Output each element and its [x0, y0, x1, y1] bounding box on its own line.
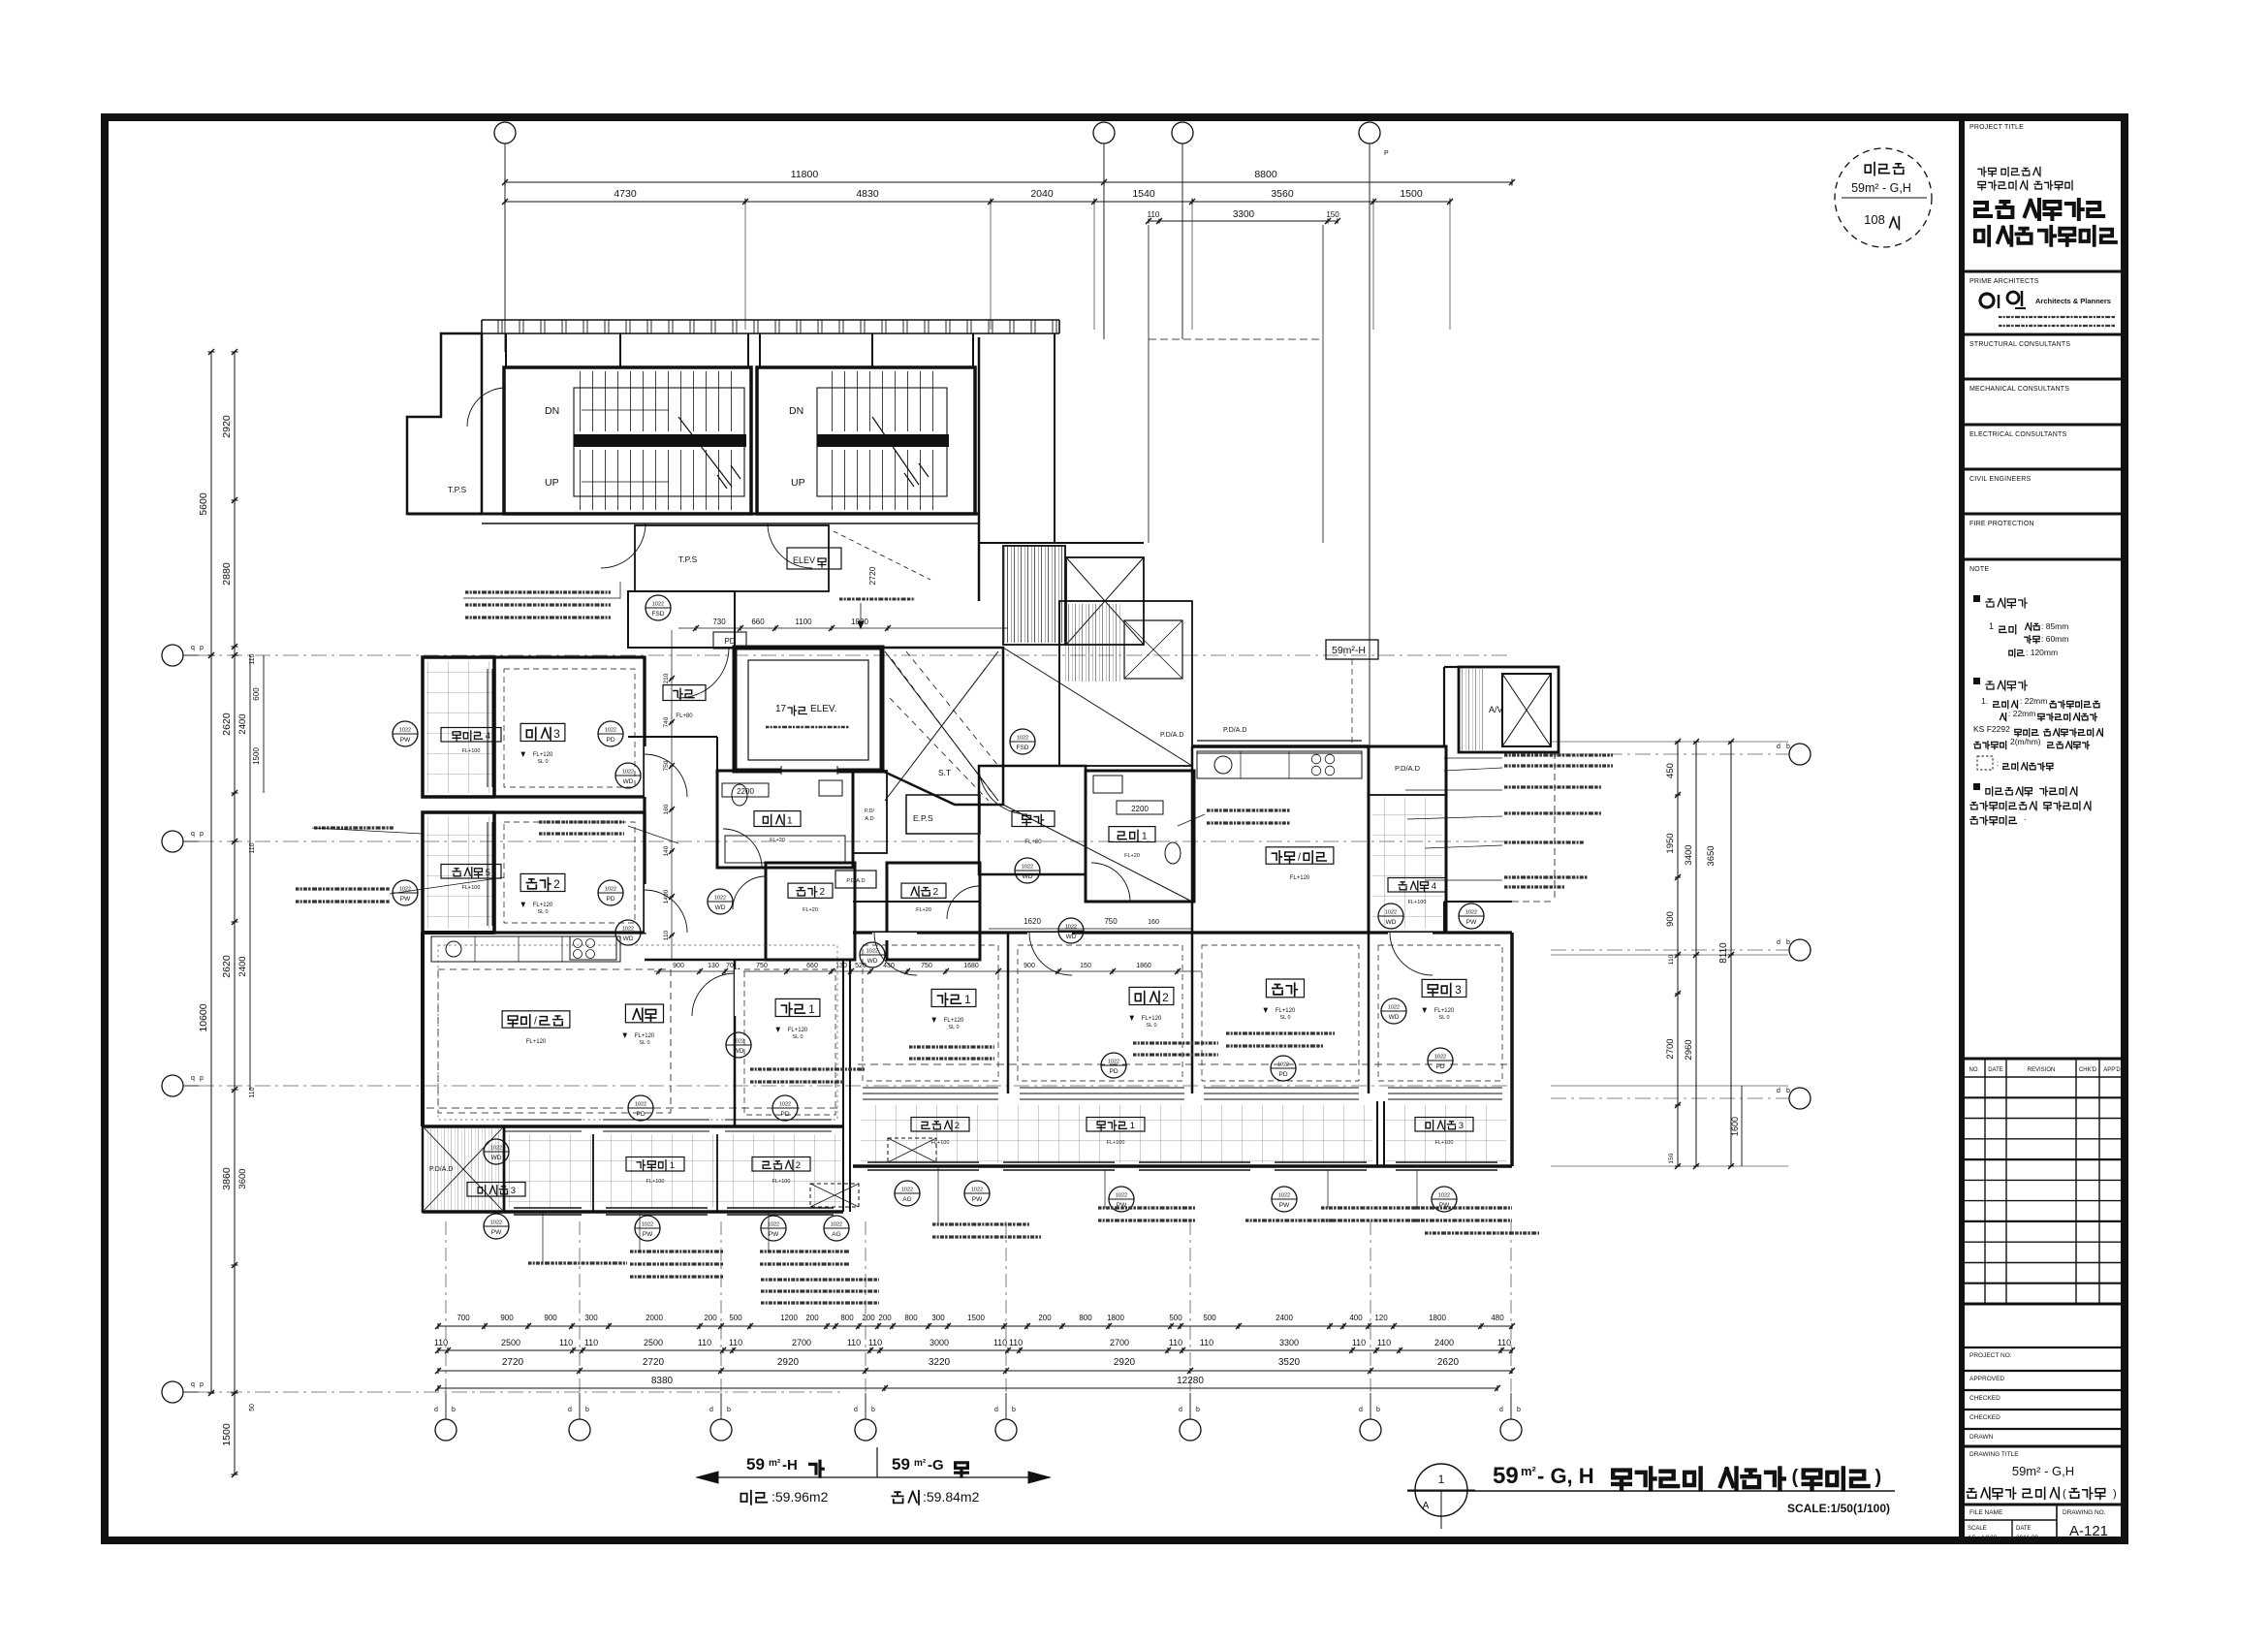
svg-text:1022: 1022 [399, 728, 411, 734]
svg-text:WD: WD [1389, 1014, 1400, 1021]
svg-text:300: 300 [931, 1314, 945, 1322]
svg-text:b: b [1376, 1407, 1380, 1413]
svg-text:P.D/A.D: P.D/A.D [1395, 764, 1421, 773]
svg-text:: 22mm: : 22mm [2008, 709, 2035, 718]
svg-text:FL+120: FL+120 [1434, 1008, 1455, 1014]
svg-text:FL+100: FL+100 [646, 1179, 665, 1185]
svg-text:1620: 1620 [1024, 917, 1041, 926]
svg-text:2620: 2620 [1437, 1357, 1460, 1368]
svg-text:/: / [534, 1016, 537, 1028]
svg-text:PW: PW [972, 1196, 983, 1203]
svg-text:REVISION: REVISION [2028, 1067, 2056, 1073]
svg-text:600: 600 [252, 687, 261, 701]
svg-text:2620: 2620 [221, 713, 233, 736]
svg-text:FL+100: FL+100 [462, 748, 481, 754]
svg-text:SCALE: SCALE [1968, 1526, 1987, 1532]
svg-text:1022: 1022 [1278, 1193, 1290, 1199]
svg-text:1200: 1200 [780, 1314, 798, 1322]
svg-text:900: 900 [500, 1314, 514, 1322]
svg-text:110: 110 [1668, 954, 1675, 965]
svg-text:1022: 1022 [1385, 910, 1397, 916]
svg-text:1800: 1800 [1429, 1314, 1446, 1322]
svg-text:59: 59 [892, 1455, 910, 1474]
svg-text:1022: 1022 [1017, 736, 1028, 742]
svg-text:FL+100: FL+100 [1408, 900, 1427, 905]
svg-text:A/V: A/V [1489, 705, 1503, 714]
svg-text:MECHANICAL CONSULTANTS: MECHANICAL CONSULTANTS [1969, 386, 2069, 393]
svg-text:110: 110 [663, 930, 670, 940]
svg-text:d: d [1777, 1088, 1780, 1094]
svg-text:110: 110 [698, 1338, 711, 1347]
svg-text:1: 1 [787, 815, 793, 826]
svg-text:d: d [1777, 939, 1780, 946]
svg-text:130: 130 [708, 963, 719, 969]
svg-text:CHECKED: CHECKED [1969, 1414, 2000, 1421]
svg-text:PROJECT TITLE: PROJECT TITLE [1969, 124, 2024, 131]
svg-text:1022: 1022 [605, 887, 616, 893]
svg-text:PW: PW [643, 1231, 653, 1238]
svg-text:110: 110 [868, 1338, 882, 1347]
svg-text:PW: PW [400, 737, 411, 744]
svg-text:-G: -G [928, 1457, 944, 1474]
svg-text:PROJECT NO.: PROJECT NO. [1969, 1352, 2012, 1359]
svg-text:A: A [1423, 1501, 1430, 1511]
svg-text:1022: 1022 [1108, 1060, 1119, 1065]
svg-text:1022: 1022 [1065, 925, 1077, 931]
svg-text:FL+80: FL+80 [676, 713, 693, 719]
svg-text:750: 750 [663, 760, 670, 771]
svg-text:4: 4 [1432, 881, 1436, 892]
svg-text:2700: 2700 [1665, 1038, 1676, 1059]
svg-text:200: 200 [878, 1314, 892, 1322]
svg-text:ELEV: ELEV [793, 555, 815, 565]
svg-text:): ) [2113, 1488, 2117, 1500]
svg-text:q: q [191, 1381, 195, 1388]
svg-text:b: b [1012, 1407, 1016, 1413]
svg-text:p: p [200, 1075, 204, 1082]
svg-text:A-121: A-121 [2069, 1523, 2108, 1539]
svg-text:4830: 4830 [856, 188, 879, 200]
svg-text:2920: 2920 [1114, 1357, 1136, 1368]
svg-text:P.D/A.D: P.D/A.D [429, 1166, 453, 1173]
svg-text:3: 3 [1455, 983, 1462, 997]
svg-text:PRIME ARCHITECTS: PRIME ARCHITECTS [1969, 278, 2039, 285]
svg-text:110: 110 [1148, 210, 1160, 219]
svg-text:4: 4 [486, 731, 490, 742]
svg-text:3600: 3600 [237, 1168, 248, 1188]
svg-text:2: 2 [820, 887, 826, 898]
svg-text:1540: 1540 [1132, 188, 1155, 200]
svg-text:UP: UP [791, 477, 805, 489]
svg-text:d: d [568, 1407, 572, 1413]
svg-text:T.P.S: T.P.S [678, 555, 698, 564]
svg-text:2(m/hm): 2(m/hm) [2010, 737, 2041, 746]
svg-text:160: 160 [663, 804, 670, 814]
svg-text:b: b [1196, 1407, 1200, 1413]
svg-text:1680: 1680 [963, 963, 979, 969]
svg-text:WD: WD [1386, 919, 1397, 926]
svg-text:PD: PD [636, 1111, 645, 1118]
svg-text:1022: 1022 [1116, 1193, 1127, 1199]
svg-text:p: p [200, 831, 204, 838]
svg-text:1022: 1022 [1388, 1005, 1400, 1011]
svg-text:110: 110 [584, 1338, 598, 1347]
svg-text:140: 140 [663, 845, 670, 856]
svg-text:b: b [452, 1407, 456, 1413]
svg-text:(: ( [1792, 1467, 1799, 1488]
svg-text:WD: WD [734, 1048, 744, 1055]
svg-text:FL+120: FL+120 [788, 1028, 808, 1033]
svg-text:AG: AG [902, 1196, 911, 1203]
svg-text:m²: m² [914, 1458, 927, 1469]
svg-text:1100: 1100 [795, 618, 812, 626]
svg-text:59: 59 [1493, 1463, 1519, 1489]
svg-text:d: d [854, 1407, 858, 1413]
svg-text:900: 900 [544, 1314, 557, 1322]
svg-text:PW: PW [1466, 919, 1477, 926]
svg-text:KS F2292: KS F2292 [1973, 724, 2010, 734]
svg-text:): ) [1875, 1467, 1882, 1488]
svg-text:110: 110 [1377, 1338, 1391, 1347]
svg-text:FL+120: FL+120 [526, 1039, 547, 1045]
svg-text:110: 110 [1009, 1338, 1023, 1347]
svg-text:1022: 1022 [779, 1102, 791, 1108]
svg-text:1500: 1500 [252, 747, 261, 765]
svg-text:110: 110 [559, 1338, 573, 1347]
svg-text:DRAWING TITLE: DRAWING TITLE [1969, 1451, 2019, 1458]
svg-text:2: 2 [796, 1160, 801, 1171]
svg-text:: 60mm: : 60mm [2041, 634, 2068, 644]
svg-text:2700: 2700 [792, 1338, 811, 1347]
svg-text:b: b [871, 1407, 875, 1413]
svg-text:110: 110 [993, 1338, 1007, 1347]
svg-text:PD: PD [1109, 1068, 1118, 1075]
svg-text:110: 110 [434, 1338, 448, 1347]
svg-text:450: 450 [1665, 763, 1676, 778]
svg-text:FL+80: FL+80 [1024, 840, 1042, 845]
svg-text:1022: 1022 [622, 770, 634, 776]
svg-text:DATE: DATE [1988, 1067, 2003, 1073]
svg-text:2960: 2960 [1684, 1039, 1694, 1060]
svg-text:S.T: S.T [938, 768, 951, 777]
svg-text:P.D/: P.D/ [865, 808, 874, 814]
svg-text:2400: 2400 [1434, 1338, 1454, 1347]
svg-text:PD: PD [1278, 1071, 1287, 1078]
svg-text:DRAWING NO.: DRAWING NO. [2063, 1509, 2106, 1516]
svg-text:WD: WD [1023, 873, 1033, 880]
svg-text:108: 108 [1864, 212, 1885, 227]
svg-text:1022: 1022 [1465, 910, 1477, 916]
svg-text:FL+120: FL+120 [1276, 1008, 1296, 1014]
svg-text:740: 740 [663, 716, 670, 727]
svg-text:200: 200 [704, 1314, 717, 1322]
svg-text:FL+120: FL+120 [944, 1018, 964, 1024]
svg-text:1022: 1022 [490, 1220, 502, 1226]
svg-text:DRAWN: DRAWN [1969, 1434, 1994, 1441]
svg-text:3560: 3560 [1271, 188, 1294, 200]
svg-text:3220: 3220 [929, 1357, 951, 1368]
svg-text:APP'D: APP'D [2103, 1067, 2121, 1073]
svg-text:900: 900 [1024, 963, 1035, 969]
svg-text:800: 800 [840, 1314, 854, 1322]
svg-text:p: p [200, 1381, 204, 1388]
svg-text:50: 50 [249, 1404, 256, 1411]
svg-text:12280: 12280 [1177, 1376, 1204, 1386]
svg-text:5: 5 [486, 868, 490, 878]
svg-text:8110: 8110 [1718, 942, 1729, 964]
svg-text:FL+100: FL+100 [1107, 1140, 1125, 1146]
svg-text:d: d [434, 1407, 438, 1413]
svg-text:2720: 2720 [502, 1357, 524, 1368]
svg-text:59m² - G,H: 59m² - G,H [1851, 181, 1911, 195]
svg-text:PW: PW [400, 896, 411, 903]
svg-text:DN: DN [545, 405, 559, 417]
svg-text:110: 110 [249, 842, 256, 853]
svg-text:NOTE: NOTE [1969, 566, 1989, 573]
svg-text:110: 110 [1169, 1338, 1182, 1347]
svg-text:8380: 8380 [651, 1376, 674, 1386]
svg-text:300: 300 [584, 1314, 598, 1322]
svg-text:1500: 1500 [221, 1423, 233, 1446]
svg-text:WD: WD [623, 935, 634, 942]
svg-text:500: 500 [729, 1314, 742, 1322]
svg-text:2: 2 [933, 887, 939, 898]
svg-text:d: d [1499, 1407, 1503, 1413]
svg-text:1022: 1022 [768, 1222, 779, 1228]
svg-text:FL+20: FL+20 [770, 838, 785, 843]
svg-text:WD: WD [867, 958, 878, 965]
svg-text:A.D: A.D [865, 816, 873, 822]
svg-text:1022: 1022 [652, 602, 664, 608]
svg-text:2011.09.: 2011.09. [2016, 1535, 2040, 1541]
svg-text:1600: 1600 [1730, 1117, 1740, 1136]
svg-text:3000: 3000 [929, 1338, 949, 1347]
svg-text:800: 800 [1079, 1314, 1092, 1322]
svg-text:2400: 2400 [237, 956, 248, 976]
svg-text:1022: 1022 [622, 927, 634, 933]
svg-text:: 22mm: : 22mm [2020, 696, 2047, 706]
svg-text:d: d [1777, 744, 1780, 750]
svg-text:WD: WD [1066, 934, 1077, 940]
svg-text:WD: WD [623, 778, 634, 785]
svg-text:3520: 3520 [1278, 1357, 1301, 1368]
svg-text:1022: 1022 [714, 896, 726, 902]
svg-text:150: 150 [1668, 1153, 1675, 1163]
svg-text:1022: 1022 [1022, 865, 1033, 871]
svg-text:Architects & Planners: Architects & Planners [2035, 297, 2111, 305]
svg-text:200: 200 [1038, 1314, 1052, 1322]
svg-text:/: / [1298, 852, 1301, 864]
svg-text:p: p [200, 645, 204, 651]
svg-text:1: 1 [670, 1160, 675, 1171]
svg-text:FL+100: FL+100 [772, 1179, 791, 1185]
svg-text:SL 0: SL 0 [792, 1034, 803, 1040]
svg-text:b: b [1517, 1407, 1521, 1413]
svg-text::59.96m2: :59.96m2 [772, 1489, 829, 1505]
svg-text:2200: 2200 [1131, 805, 1149, 813]
svg-text:1022: 1022 [605, 728, 616, 734]
svg-text:900: 900 [673, 963, 684, 969]
svg-text:1950: 1950 [1665, 833, 1676, 853]
svg-text:110: 110 [847, 1338, 861, 1347]
svg-text:CIVIL ENGINEERS: CIVIL ENGINEERS [1969, 476, 2032, 483]
svg-text:b: b [1786, 939, 1790, 946]
svg-text:1022: 1022 [490, 1146, 502, 1152]
svg-text:800: 800 [904, 1314, 918, 1322]
svg-text:1500: 1500 [967, 1314, 985, 1322]
svg-text:1022: 1022 [831, 1222, 842, 1228]
svg-text:PD: PD [1435, 1063, 1444, 1070]
svg-text:DN: DN [789, 405, 803, 417]
svg-text:WD: WD [715, 904, 726, 911]
svg-text:17: 17 [775, 704, 787, 714]
svg-text:(: ( [2063, 1488, 2066, 1500]
svg-text:750: 750 [756, 963, 768, 969]
svg-text:3300: 3300 [1279, 1338, 1299, 1347]
svg-text:5600: 5600 [198, 492, 209, 516]
svg-text:UP: UP [545, 477, 559, 489]
svg-text:PW: PW [769, 1231, 779, 1238]
svg-text:1800: 1800 [1107, 1314, 1124, 1322]
svg-text:500: 500 [1203, 1314, 1216, 1322]
svg-text:4730: 4730 [614, 188, 637, 200]
svg-text:1022: 1022 [642, 1222, 653, 1228]
svg-text:210: 210 [663, 673, 670, 683]
svg-text:1: 1 [1142, 831, 1148, 841]
svg-text:2880: 2880 [221, 562, 233, 586]
svg-text:750: 750 [1104, 917, 1118, 926]
svg-text:T.P.S: T.P.S [448, 485, 467, 494]
svg-text:480: 480 [1491, 1314, 1504, 1322]
svg-text:1: 1 [1438, 1473, 1445, 1486]
svg-text:3400: 3400 [1684, 844, 1694, 865]
svg-text:2620: 2620 [221, 955, 233, 978]
svg-text:2720: 2720 [643, 1357, 665, 1368]
svg-text:110: 110 [1497, 1338, 1511, 1347]
svg-text:FIRE PROTECTION: FIRE PROTECTION [1969, 521, 2034, 527]
svg-text:11800: 11800 [791, 169, 819, 180]
svg-text:2920: 2920 [777, 1357, 800, 1368]
svg-text:E.P.S: E.P.S [913, 813, 933, 823]
svg-text:110: 110 [1352, 1338, 1366, 1347]
svg-text:q: q [191, 645, 195, 651]
svg-text:200: 200 [862, 1314, 875, 1322]
svg-text:NO: NO [1969, 1067, 1978, 1073]
svg-text:d: d [994, 1407, 998, 1413]
svg-text:3300: 3300 [1233, 209, 1255, 220]
svg-text:1500: 1500 [1400, 188, 1423, 200]
svg-text:3: 3 [511, 1186, 516, 1196]
svg-text:2700: 2700 [1110, 1338, 1129, 1347]
svg-text:3: 3 [553, 727, 560, 741]
svg-text:750: 750 [921, 963, 932, 969]
svg-text:AG: AG [832, 1231, 840, 1238]
svg-text:1022: 1022 [1438, 1193, 1450, 1199]
svg-text:500: 500 [1169, 1314, 1182, 1322]
svg-text:1: 1 [1989, 621, 1994, 631]
svg-text:: 120mm: : 120mm [2026, 648, 2058, 657]
svg-text:b: b [1786, 1088, 1790, 1094]
svg-text:2400: 2400 [1276, 1314, 1293, 1322]
svg-text:FL+120: FL+120 [533, 752, 553, 758]
svg-text:CHK'D: CHK'D [2079, 1067, 2097, 1073]
svg-text:FL+120: FL+120 [1290, 875, 1310, 881]
svg-text:2000: 2000 [646, 1314, 663, 1322]
svg-text:2500: 2500 [644, 1338, 663, 1347]
svg-text:520: 520 [855, 963, 866, 969]
svg-text::: : [1997, 759, 1999, 768]
svg-text:.: . [2024, 812, 2027, 822]
svg-text:CHECKED: CHECKED [1969, 1395, 2000, 1402]
svg-text:SL 0: SL 0 [639, 1040, 649, 1046]
svg-text:59: 59 [746, 1455, 765, 1474]
svg-text:200: 200 [805, 1314, 819, 1322]
svg-text:59m² - G,H: 59m² - G,H [2012, 1464, 2074, 1478]
svg-text:-H: -H [782, 1457, 798, 1474]
svg-text:FL+120: FL+120 [1142, 1016, 1162, 1022]
svg-text:FSD: FSD [1017, 745, 1029, 751]
svg-text:SL 0: SL 0 [537, 909, 548, 915]
svg-text:3650: 3650 [1706, 845, 1717, 866]
svg-text:SL 0: SL 0 [1279, 1015, 1290, 1021]
svg-text:1022: 1022 [971, 1188, 983, 1193]
svg-text:1: 1 [964, 993, 971, 1006]
svg-text:110: 110 [249, 1087, 256, 1097]
svg-text:PW: PW [1279, 1202, 1290, 1209]
svg-text:2: 2 [553, 877, 560, 891]
svg-text:2400: 2400 [237, 713, 248, 734]
svg-text:1860: 1860 [1136, 963, 1151, 969]
svg-text:150: 150 [1326, 210, 1339, 219]
svg-text:110: 110 [729, 1338, 742, 1347]
svg-text:FL+20: FL+20 [1124, 853, 1140, 859]
svg-text:1400: 1400 [663, 889, 670, 903]
svg-text:2: 2 [1162, 991, 1169, 1004]
svg-text:PW: PW [491, 1229, 502, 1236]
svg-text:700: 700 [457, 1314, 470, 1322]
svg-text:1022: 1022 [901, 1188, 913, 1193]
svg-text:FL+20: FL+20 [803, 907, 818, 913]
svg-text:FL+20: FL+20 [916, 907, 931, 913]
svg-text:- G, H: - G, H [1537, 1464, 1594, 1488]
svg-text:FSD: FSD [652, 611, 665, 618]
svg-text:730: 730 [712, 618, 726, 626]
svg-text:PD: PD [606, 737, 614, 744]
svg-text:400: 400 [1349, 1314, 1363, 1322]
svg-text:q: q [191, 831, 195, 838]
svg-text:SL 0: SL 0 [948, 1025, 959, 1030]
svg-text:FL+100: FL+100 [931, 1140, 950, 1146]
svg-text:1022: 1022 [1277, 1062, 1289, 1068]
svg-text:1: 1 [808, 1002, 815, 1016]
svg-text:SCALE:1/50(1/100): SCALE:1/50(1/100) [1787, 1502, 1890, 1515]
svg-text:FL+100: FL+100 [462, 885, 481, 891]
svg-text:3860: 3860 [221, 1167, 233, 1190]
svg-text:SL 0: SL 0 [1146, 1023, 1156, 1029]
svg-text:d: d [1359, 1407, 1363, 1413]
svg-text:660: 660 [806, 963, 818, 969]
svg-text:d: d [709, 1407, 713, 1413]
svg-text:2500: 2500 [501, 1338, 520, 1347]
svg-text:P.D/A.D: P.D/A.D [1160, 732, 1183, 739]
svg-text:m²: m² [769, 1458, 781, 1469]
svg-text:P: P [1384, 150, 1389, 157]
svg-text:b: b [585, 1407, 589, 1413]
svg-text:SL 0: SL 0 [1438, 1015, 1449, 1021]
svg-text:P.D/A.D: P.D/A.D [1223, 727, 1246, 734]
svg-text:10600: 10600 [198, 1003, 209, 1031]
svg-text:ELEV.: ELEV. [810, 704, 836, 714]
